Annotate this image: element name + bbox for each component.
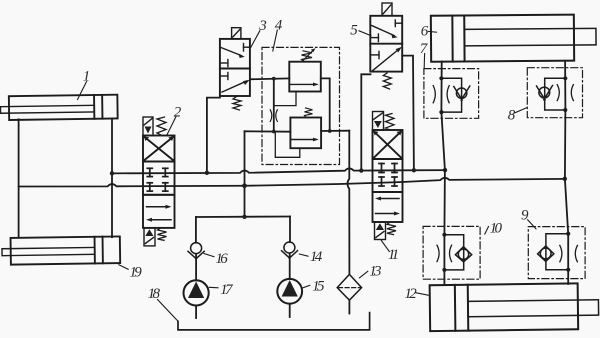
svg-text:5: 5 (350, 23, 358, 39)
throttle-check unit 8 (537, 78, 574, 110)
throttle-check unit 8 frame (527, 68, 582, 118)
label 19 (119, 265, 128, 270)
wire valve 3 to bus A (207, 98, 220, 173)
wire pump 17 suction (195, 306, 197, 319)
svg-text:14: 14 (310, 249, 323, 265)
wire left tie line cylinders 1-19 (18, 119, 20, 237)
valve 3 spring (233, 97, 241, 111)
wire lower valve right port (321, 130, 349, 132)
svg-text:10: 10 (490, 221, 503, 237)
wire unit 4 to supply node (244, 131, 246, 217)
label 6 (429, 30, 437, 33)
valve 5 solenoid (382, 3, 392, 16)
wire valve 5 left port to bus A (361, 74, 370, 170)
svg-text:15: 15 (312, 278, 325, 294)
label 4 (273, 30, 278, 51)
label 14 (299, 254, 308, 256)
valve 2 bottom solenoid (144, 228, 155, 246)
wire check 16 to pump 17 (195, 254, 197, 280)
valve 11 parallel arrows position (375, 197, 400, 216)
cylinder 1 (0, 95, 117, 120)
valve 3 solenoid (232, 28, 241, 39)
valve 5 pilot 2-position (370, 16, 402, 72)
svg-text:4: 4 (275, 17, 283, 33)
svg-text:17: 17 (220, 282, 234, 298)
orifice restrictor (270, 110, 277, 122)
pump 15 (277, 279, 302, 304)
wire cylinder 6 right port down to cylinder 12 (565, 62, 568, 285)
wire cylinder 6 left port down to cylinder 12 (441, 62, 445, 285)
pressure valve upper spring with arrow (302, 48, 316, 61)
pressure valve upper in unit 4 (289, 62, 321, 92)
label 2 (167, 117, 176, 136)
valve 3 pilot 2-position (220, 39, 250, 96)
wire upper valve drain (274, 92, 296, 106)
valve 11 directional 4/3 (373, 130, 403, 222)
throttle-check unit 7 (433, 78, 470, 112)
wire valve 3 to upper pressure valve (250, 77, 289, 80)
svg-text:8: 8 (508, 108, 516, 124)
valve 11 top spring (386, 114, 395, 130)
wire unit 4 output down to filter (347, 131, 349, 275)
label 18 (158, 300, 178, 321)
svg-text:6: 6 (421, 23, 429, 39)
wire lower pressure valve left port (245, 130, 291, 132)
wire lower valve drain loop (275, 132, 300, 158)
cylinder 12 (430, 283, 599, 331)
label 12 (415, 293, 428, 296)
check valve 14 (282, 242, 298, 258)
valve 2 top solenoid (143, 117, 153, 136)
valve 11 centre closed ports (379, 164, 397, 187)
valve 2 directional 4/3 (143, 136, 175, 228)
throttle-check unit 9 (538, 234, 578, 270)
wire header to check valve 14 (289, 217, 291, 243)
svg-text:13: 13 (369, 264, 381, 280)
svg-text:2: 2 (174, 105, 182, 121)
wire right tie line cylinders 1-19 (111, 119, 113, 238)
throttle-check unit 10 (437, 235, 472, 270)
pressure valve lower spring (305, 108, 313, 117)
wire branch with orifice (273, 79, 275, 132)
label 1 (78, 82, 87, 100)
label 9 (528, 220, 536, 229)
label 17 (209, 286, 218, 289)
wire check 14 to pump 15 (289, 253, 291, 279)
svg-text:18: 18 (148, 286, 161, 302)
wire pump 15 suction (289, 304, 291, 317)
label 7 (423, 54, 425, 68)
valve 2 bottom spring (158, 228, 167, 240)
valve 11 top solenoid (373, 112, 384, 131)
throttle-check unit 10 frame (423, 226, 480, 279)
enclosure 4 dash-dot frame (262, 47, 340, 164)
valve 5 spring (383, 73, 391, 89)
wire filter suction (348, 300, 350, 313)
throttle-check unit 9 frame (528, 227, 585, 279)
label 10 (485, 227, 489, 235)
label 15 (302, 285, 310, 288)
svg-text:3: 3 (258, 18, 267, 34)
svg-text:12: 12 (404, 286, 417, 302)
label 5 (359, 31, 371, 36)
valve 2 parallel arrows position (146, 205, 172, 222)
tank 18 (178, 313, 370, 330)
svg-text:1: 1 (83, 69, 91, 85)
cylinder 6 (431, 14, 596, 61)
throttle-check unit 7 frame (424, 69, 479, 119)
label 8 (515, 108, 526, 113)
valve 11 bottom solenoid (375, 222, 386, 240)
svg-text:19: 19 (129, 265, 142, 281)
wire pump supply header (196, 216, 290, 219)
svg-text:9: 9 (521, 207, 529, 223)
valve 11 bottom spring (387, 223, 396, 235)
cylinder 19 (2, 236, 120, 264)
svg-text:7: 7 (420, 41, 429, 57)
labels and leader lines (78, 30, 537, 321)
label 11 (381, 241, 389, 252)
svg-text:16: 16 (215, 251, 228, 267)
wire upper valve right port down (321, 78, 330, 131)
wire header to check valve 16 (195, 217, 197, 243)
wire valve 5 right port to bus A (402, 56, 414, 171)
label 13 (360, 271, 368, 278)
svg-text:11: 11 (388, 247, 398, 263)
pump 17 (184, 280, 209, 305)
check valve 16 (188, 243, 204, 259)
wire bus B cap-side main line (19, 178, 565, 187)
pressure valve lower in unit 4 (290, 118, 321, 149)
label 3 (250, 31, 259, 48)
label 16 (204, 254, 214, 257)
valve 2 centre closed ports (147, 168, 168, 191)
valve 2 top spring (157, 117, 166, 135)
filter 13 (337, 274, 361, 300)
wire bus A rod-side main line (112, 168, 445, 173)
